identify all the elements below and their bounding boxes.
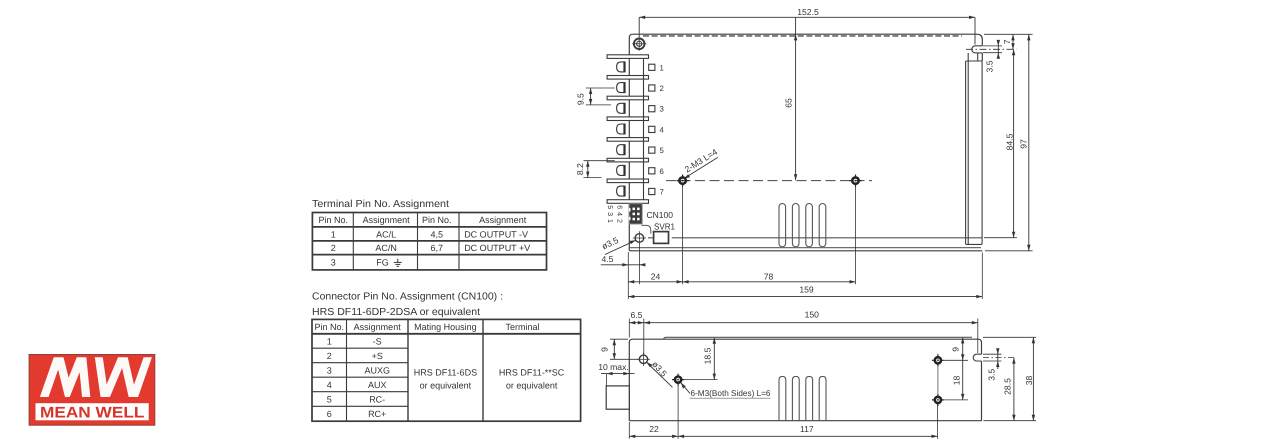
bottom right keyhole slot [973, 354, 981, 361]
label phi 3.5 (bottom view) [646, 359, 672, 387]
top view cover dashed seam [643, 35, 962, 37]
svg-text:Connector Pin No. Assignment (: Connector Pin No. Assignment (CN100) : [312, 291, 503, 302]
dimension 9 (left) [600, 339, 639, 359]
svg-text:DC OUTPUT +V: DC OUTPUT +V [464, 243, 530, 253]
dimension 159 [628, 253, 982, 300]
svg-text:531: 531 [606, 205, 613, 226]
svg-text:3.5: 3.5 [985, 60, 995, 72]
svg-text:or equivalent: or equivalent [506, 381, 558, 391]
svg-text:6-M3(Both Sides) L=6: 6-M3(Both Sides) L=6 [691, 388, 771, 398]
slot centerline (bottom right) [983, 357, 1017, 359]
svg-text:65: 65 [784, 98, 794, 108]
svg-text:DC OUTPUT -V: DC OUTPUT -V [464, 229, 528, 239]
svg-text:2: 2 [331, 243, 336, 253]
svg-text:18.5: 18.5 [703, 347, 713, 364]
svg-text:1: 1 [331, 229, 336, 239]
svg-text:150: 150 [805, 310, 820, 320]
table 1 text [319, 215, 527, 267]
svg-text:3.5: 3.5 [987, 369, 997, 381]
svg-text:Terminal Pin No. Assignment: Terminal Pin No. Assignment [312, 199, 449, 210]
earth ground symbol in FG cell [394, 259, 402, 267]
svg-text:9: 9 [600, 347, 610, 352]
svg-text:3: 3 [660, 105, 664, 114]
svg-text:6.5: 6.5 [631, 310, 643, 320]
svg-text:Assignment: Assignment [354, 322, 402, 332]
svg-text:5: 5 [660, 146, 665, 155]
top-left mounting hole [632, 37, 646, 51]
terminal screw slots (thick vertical) [623, 61, 625, 196]
svg-text:RC-: RC- [369, 395, 385, 405]
svg-text:3: 3 [331, 258, 336, 268]
svg-text:7: 7 [1002, 39, 1012, 44]
chassis hole 1 (2-M3) [677, 175, 689, 187]
svg-text:HRS DF11-**SC: HRS DF11-**SC [499, 368, 565, 378]
svg-text:SVR1: SVR1 [654, 222, 675, 232]
svg-text:1: 1 [660, 63, 664, 72]
dimension 150 [644, 310, 978, 354]
svg-text:7: 7 [660, 188, 664, 197]
dimension 3.5 (top right) [985, 40, 1001, 73]
svg-text:2: 2 [660, 84, 664, 93]
svg-text:6,7: 6,7 [431, 243, 444, 253]
Mean Well logo white band [36, 403, 149, 420]
svg-text:22: 22 [649, 424, 659, 434]
top right keyhole slot [972, 46, 983, 53]
svg-text:1: 1 [327, 337, 332, 347]
top view front inner line [648, 237, 982, 239]
svg-text:AUXG: AUXG [364, 366, 390, 376]
svg-text:CN100: CN100 [647, 210, 674, 220]
Mean Well logo MW letters [44, 355, 149, 399]
svg-text:+S: +S [372, 351, 383, 361]
AC terminal protrusion [606, 386, 629, 409]
svg-text:FG: FG [376, 258, 389, 268]
svg-text:RC+: RC+ [368, 409, 386, 419]
top view inner bottom line [630, 247, 981, 249]
dimension 38 [983, 337, 1036, 420]
svg-text:4.5: 4.5 [602, 254, 614, 264]
pin numbers 1-7 [660, 63, 665, 196]
bottom view hole 6-M3 [672, 374, 684, 386]
svg-text:AC/L: AC/L [376, 229, 396, 239]
svg-text:3: 3 [327, 366, 332, 376]
svg-text:4: 4 [327, 380, 332, 390]
svg-text:9: 9 [951, 347, 961, 352]
svg-text:6: 6 [327, 409, 332, 419]
terminal block bars [607, 55, 648, 204]
svg-text:159: 159 [799, 285, 814, 295]
Mean Well logo red box [29, 355, 155, 426]
corner hook below CN100 [642, 225, 651, 233]
dimension 65 [784, 18, 798, 181]
svg-text:or equivalent: or equivalent [420, 381, 472, 391]
bottom view vent slots [779, 376, 826, 420]
dimension 7 [1002, 34, 1015, 49]
dimension 8.2 [575, 161, 615, 178]
dimension 3.5 (bottom right) [983, 348, 1002, 381]
right side bar [966, 53, 983, 244]
svg-text:10 max.: 10 max. [598, 362, 629, 372]
pin squares 1-7 [649, 64, 655, 194]
svg-text:4: 4 [660, 125, 665, 134]
svg-text:18: 18 [952, 376, 962, 386]
svg-text:Mating Housing: Mating Housing [414, 322, 477, 332]
svg-text:84.5: 84.5 [1004, 133, 1014, 150]
dimension 24 and 78 [628, 186, 855, 285]
dimension 9.5 [576, 88, 615, 105]
svg-text:AUX: AUX [368, 380, 387, 390]
top view case outline [629, 34, 982, 251]
bottom view cover top line [664, 337, 972, 339]
CN100 connector block [629, 204, 642, 224]
dimension 4.5 [601, 245, 646, 285]
svg-text:HRS DF11-6DP-2DSA or equivalen: HRS DF11-6DP-2DSA or equivalent [312, 307, 480, 318]
svg-text:8.2: 8.2 [575, 163, 585, 175]
table 2: connector pin assignment [312, 319, 581, 421]
bottom view right holes [932, 354, 968, 406]
bottom view case outline [629, 339, 981, 421]
table 2 text [314, 322, 564, 419]
centerline between holes [666, 180, 872, 182]
dimension 152.5 [639, 17, 975, 44]
svg-text:2: 2 [327, 351, 332, 361]
svg-text:Pin No.: Pin No. [422, 215, 452, 225]
svg-text:97: 97 [1019, 139, 1029, 149]
chassis hole 2 [849, 175, 861, 187]
svg-text:AC/N: AC/N [375, 243, 397, 253]
dimension 28.5 [1003, 358, 1016, 421]
dimension 18 [952, 360, 965, 400]
svg-text:-S: -S [373, 337, 382, 347]
svg-text:152.5: 152.5 [797, 7, 819, 17]
table 1: terminal pin assignment [312, 213, 546, 270]
svg-text:HRS DF11-6DS: HRS DF11-6DS [414, 368, 477, 378]
svg-text:6: 6 [660, 167, 664, 176]
dimension 9 (right) [951, 337, 965, 360]
dimension 18.5 [683, 338, 718, 380]
svg-text:Assignment: Assignment [363, 215, 411, 225]
svg-text:Assignment: Assignment [479, 215, 527, 225]
svg-text:2-M3 L=4: 2-M3 L=4 [683, 147, 719, 175]
svg-text:Pin No.: Pin No. [314, 322, 344, 332]
SVR1 square [654, 232, 669, 244]
dimension 97 [1019, 34, 1031, 250]
terminal screws (D shapes) [617, 62, 624, 196]
dimension 6.5 [629, 310, 650, 355]
svg-text:5: 5 [327, 395, 332, 405]
svg-text:28.5: 28.5 [1003, 378, 1013, 395]
svg-text:78: 78 [764, 272, 774, 282]
label 2-M3 L=4 [683, 147, 719, 179]
dimension 22 and 117 [629, 385, 937, 439]
svg-text:117: 117 [800, 424, 814, 434]
svg-text:24: 24 [651, 272, 661, 282]
svg-text:MEAN WELL: MEAN WELL [40, 405, 144, 422]
svg-text:642: 642 [616, 205, 623, 226]
dimension 84.5 [1004, 49, 1015, 237]
right side extension lines [966, 34, 1033, 251]
svg-text:4,5: 4,5 [431, 229, 444, 239]
bottom view hole left (open) [637, 353, 650, 366]
svg-text:Pin No.: Pin No. [319, 215, 349, 225]
label 6-M3(Both Sides) L=6 [681, 383, 771, 399]
svg-text:38: 38 [1024, 376, 1034, 386]
label phi 3.5 (top view) [600, 235, 636, 255]
top view vent slots [779, 204, 826, 247]
bottom-left mounting hole [633, 231, 646, 244]
dimension 10 max. [598, 362, 634, 386]
svg-text:9.5: 9.5 [576, 93, 586, 105]
svg-text:Terminal: Terminal [505, 322, 539, 332]
terminal body right edge [643, 58, 645, 199]
